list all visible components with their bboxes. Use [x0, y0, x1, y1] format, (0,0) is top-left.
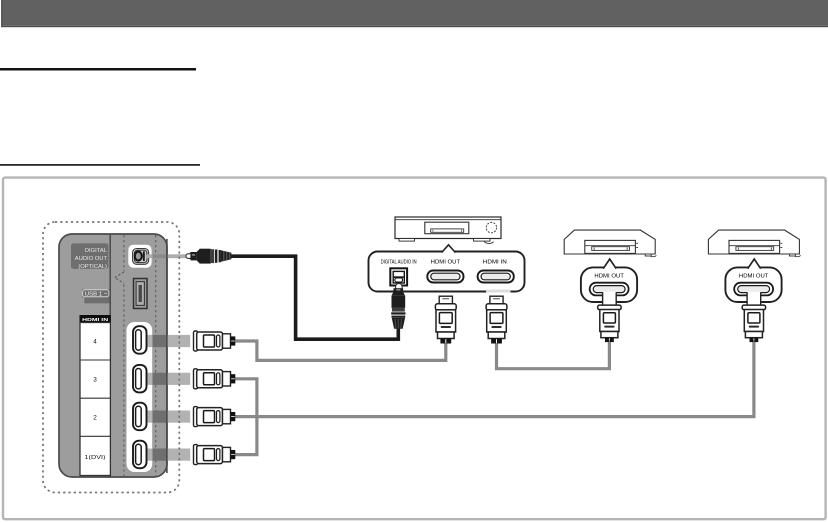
optical cable (black): [231, 256, 399, 339]
DVD HDMI OUT plug: [435, 296, 456, 343]
device 3 HDMI plug: [742, 292, 765, 342]
insert band: HDMI 3: [146, 373, 190, 385]
svg-text:HDMI OUT: HDMI OUT: [594, 274, 624, 280]
HDMI IN port 3: [133, 365, 147, 393]
heading rule 2: [0, 164, 200, 166]
heading rule 1: [0, 68, 196, 71]
HDMI IN port 2: [133, 403, 147, 431]
panel divider line: [109, 235, 111, 477]
optical plug at TV: [186, 249, 231, 264]
HDMI number column: [80, 323, 110, 476]
header bar: [1, 0, 828, 26]
HDMI IN port 4: [133, 326, 147, 354]
device 3 (blu-ray) box: [708, 230, 800, 257]
svg-text:HDMI OUT: HDMI OUT: [739, 274, 769, 280]
cable: HDMI3 to HDMI1 loop: [235, 379, 257, 455]
TV rear panel body: [59, 234, 167, 477]
panel dashed cut line 1 (upper): [123, 235, 125, 271]
device 2 HDMI plug: [598, 292, 621, 342]
device 2 (blu-ray) box: [564, 230, 656, 257]
DVD jack panel callout: [369, 245, 525, 293]
label: HDMI IN: [80, 315, 111, 323]
device 3 HDMI OUT port: [734, 283, 773, 296]
insert band: HDMI 1: [146, 449, 190, 461]
svg-text:DIGITAL: DIGITAL: [85, 248, 108, 254]
svg-text:3: 3: [93, 377, 97, 384]
panel dashed cut line 1 (lower): [123, 284, 125, 476]
cable: HDMI4 to DVD HDMI OUT: [235, 341, 446, 360]
cable: DVD HDMI IN to device2 HDMI OUT: [497, 340, 610, 369]
svg-text:1(DVI): 1(DVI): [85, 455, 106, 461]
DVD player box: [395, 217, 501, 243]
svg-text:2: 2: [93, 415, 97, 422]
DVD optical in port: [390, 268, 407, 285]
cut chevron: [115, 272, 124, 283]
device 2 callout: [581, 259, 637, 302]
insert band: HDMI 2: [146, 411, 190, 423]
TV HDMI plug 2: [194, 407, 236, 427]
TV HDMI plug 3: [194, 369, 236, 389]
DVD HDMI IN port: [478, 271, 514, 283]
optical out port (TV): [128, 245, 151, 268]
svg-text:HDMI OUT: HDMI OUT: [431, 260, 461, 266]
label: USB 1: [82, 289, 110, 303]
svg-text:DIGITAL AUDIO IN: DIGITAL AUDIO IN: [381, 260, 417, 266]
svg-text:HDMI IN: HDMI IN: [483, 260, 507, 266]
TV HDMI plug 1: [194, 445, 236, 465]
svg-text:(OPTICAL): (OPTICAL): [78, 264, 107, 270]
svg-text:USB 1 ~: USB 1 ~: [85, 292, 108, 298]
insert band: HDMI 4: [146, 335, 190, 347]
DVD optical plug (vertical): [391, 283, 405, 328]
HDMI ports column: [127, 322, 153, 472]
HDMI IN port 1: [133, 441, 147, 469]
device 3 callout: [725, 259, 781, 302]
svg-text:4: 4: [93, 339, 97, 346]
TV HDMI plug 4: [194, 331, 236, 351]
DVD HDMI IN plug: [486, 296, 507, 343]
label: DIGITAL AUDIO OUT (OPTICAL): [71, 243, 109, 270]
insert band: optical: [146, 254, 187, 258]
diagram frame: [3, 178, 826, 520]
svg-text:AUDIO OUT: AUDIO OUT: [75, 256, 108, 262]
panel dashed cut line 2: [155, 235, 157, 476]
panel edge over bands: [166, 239, 168, 473]
cable: HDMI2 to device3 HDMI OUT: [235, 340, 754, 417]
TV dashed outline: [43, 222, 179, 493]
DVD HDMI OUT port: [427, 271, 463, 283]
device 2 HDMI OUT port: [590, 283, 629, 296]
USB port: [134, 279, 148, 309]
